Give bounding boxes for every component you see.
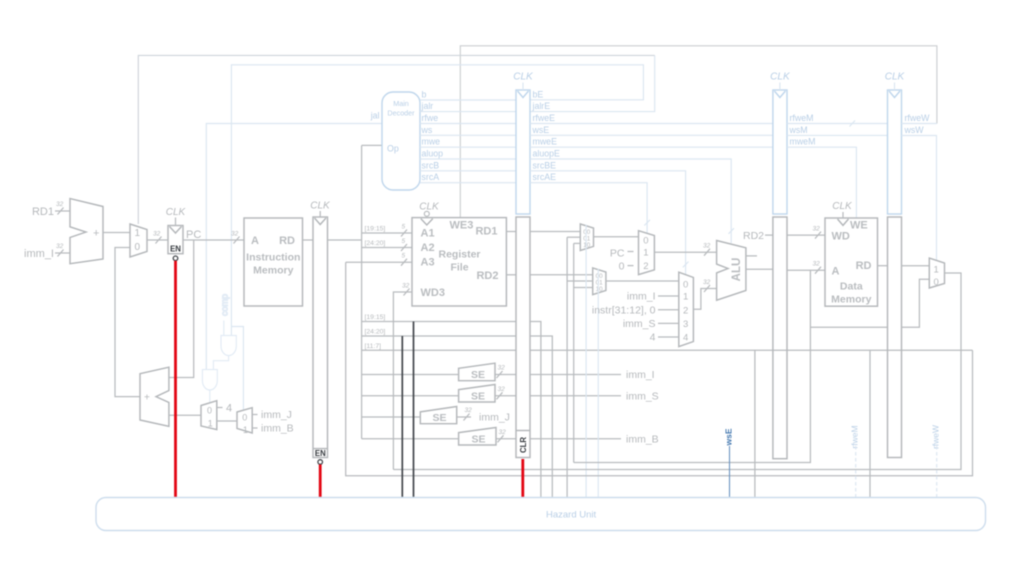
svg-text:0: 0: [242, 413, 247, 423]
wire ResultW forward tap into mux B: [567, 280, 593, 282]
wire branch-adder output loop to PCsrc mux input 0: [115, 248, 140, 397]
svg-text:EN: EN: [315, 449, 326, 458]
wire rfweW feedback top (to WE3 and down from x937): [460, 46, 937, 218]
svg-text:1: 1: [208, 419, 213, 429]
svg-text:RD2: RD2: [476, 270, 498, 282]
STAGE-D: [310, 92, 420, 464]
svg-text:WD3: WD3: [421, 287, 445, 299]
register D/E control (blue): [516, 90, 530, 214]
wire instruction bus to distribution node: [328, 239, 362, 241]
svg-text:rfweW: rfweW: [931, 425, 941, 449]
svg-text:32: 32: [231, 231, 239, 238]
wire ResultW forward tap into mux A: [567, 236, 580, 238]
enable bubble on PC register: [173, 256, 178, 261]
svg-text:CLK: CLK: [832, 201, 853, 212]
wire imm_S into SrcB mux input 3: [623, 318, 679, 330]
svg-text:imm_J: imm_J: [261, 409, 292, 421]
register M/W datapath: [888, 217, 902, 458]
svg-text:CLK: CLK: [885, 72, 906, 83]
WIRES-LONG: [138, 46, 937, 410]
wire srcA decoder to E reg: [420, 172, 516, 183]
svg-text:10: 10: [583, 242, 591, 249]
wire ReadDataM to W register: [878, 265, 888, 267]
HAZARD-UNIT: [96, 498, 986, 531]
wire SrcB mux to ALU: [693, 279, 716, 309]
svg-text:wsE: wsE: [532, 125, 550, 135]
svg-text:ws: ws: [421, 125, 433, 135]
wire rfweE to M register: [530, 113, 773, 124]
clock CLK of register file: [419, 202, 440, 226]
bus slash 32 on RD1 wire: [56, 201, 64, 215]
E-REGISTERS: [513, 72, 773, 458]
svg-text:0: 0: [934, 277, 939, 288]
wire RdW loop back to A3: [346, 262, 973, 476]
svg-text:WE: WE: [850, 220, 868, 232]
wire StallF (red) from hazard unit to PC EN: [174, 261, 177, 497]
wire wsE to M register: [530, 125, 773, 136]
svg-text:RD1: RD1: [475, 226, 497, 238]
M-REGISTERS: [770, 72, 887, 459]
svg-text:CLK: CLK: [770, 72, 791, 83]
clock CLK of M/W control register: [885, 72, 906, 91]
mux PCsrc (1/0): [130, 224, 147, 257]
svg-text:srcB: srcB: [422, 160, 440, 170]
svg-text:mweM: mweM: [790, 137, 816, 147]
svg-text:32: 32: [402, 283, 410, 290]
svg-text:+: +: [144, 393, 150, 404]
extender SE imm_S: [362, 385, 516, 403]
svg-text:imm_I: imm_I: [626, 369, 655, 381]
wire srcAE to SrcA mux select: [530, 172, 650, 233]
svg-text:A2: A2: [421, 242, 435, 254]
svg-text:4: 4: [650, 332, 656, 344]
wire imm_I into adder: [55, 252, 70, 254]
svg-text:imm_I: imm_I: [627, 291, 656, 303]
wire instr[24:20] to A2: [362, 238, 412, 251]
wire wsM to W register: [787, 125, 888, 135]
wire constant 4 into mux: [217, 403, 232, 415]
svg-text:rfwe: rfwe: [422, 113, 439, 123]
svg-text:SE: SE: [471, 390, 485, 402]
svg-text:32: 32: [498, 386, 506, 393]
REGFILE-AREA: [362, 202, 516, 470]
register PC (with EN): [168, 226, 183, 254]
svg-text:RD1: RD1: [32, 206, 54, 218]
svg-text:[24:20]: [24:20]: [365, 240, 386, 247]
svg-text:1: 1: [243, 425, 248, 435]
wire RdW to A3: [346, 253, 412, 266]
register E/M control (blue): [773, 90, 787, 214]
wire ALUResultM forward vertical: [573, 243, 575, 462]
svg-text:2: 2: [643, 261, 648, 272]
STAGE-E: [530, 224, 973, 497]
wire ResultW forward vertical: [566, 237, 568, 497]
OVERLAY-STRONG-LINES: [176, 261, 523, 497]
wire Rs1E to hazard unit: [530, 322, 541, 498]
svg-text:PC: PC: [610, 248, 625, 260]
hazard unit box: [96, 498, 986, 531]
COMP-AND-GATES: [202, 294, 236, 402]
svg-text:imm_J: imm_J: [479, 412, 510, 424]
mux result (1/0): [929, 258, 944, 288]
wire imm_I into SrcB mux input 1: [627, 291, 679, 303]
clock CLK of E/M control register: [770, 72, 791, 91]
wire Rs2E to hazard unit: [530, 336, 552, 497]
svg-text:Memory: Memory: [831, 294, 871, 306]
svg-text:1: 1: [934, 265, 939, 276]
wire WriteDataM to data memory WD: [787, 226, 825, 239]
svg-text:2: 2: [683, 305, 688, 316]
wire PC into SrcA mux input 1: [610, 248, 634, 260]
svg-text:Memory: Memory: [253, 265, 293, 277]
clock CLK of data memory: [832, 201, 853, 225]
wire FlushE (red) from hazard unit to D/E CLR: [521, 459, 524, 497]
clock CLK of PC register: [166, 207, 187, 226]
svg-text:32: 32: [56, 201, 64, 208]
enable bubble on F/D register: [318, 460, 323, 465]
CONTROL-ROWS-D: [420, 90, 516, 183]
wire ALU flag stub: [746, 255, 757, 257]
svg-text:4: 4: [683, 333, 688, 344]
svg-text:imm_I: imm_I: [24, 248, 54, 260]
wire instr[19:15] slice row D: [362, 314, 516, 322]
register M/W control (blue): [888, 90, 902, 214]
signal rfweW (blue) to hazard unit: [931, 425, 941, 497]
wire imm_B E with label: [530, 433, 659, 445]
svg-text:0: 0: [643, 236, 648, 247]
wire aluopE to ALU control: [530, 149, 731, 244]
svg-text:1: 1: [643, 248, 648, 259]
svg-text:SE: SE: [471, 369, 485, 381]
svg-text:+: +: [93, 228, 99, 240]
svg-text:srcBE: srcBE: [533, 160, 557, 170]
svg-text:0: 0: [619, 261, 625, 273]
svg-text:mwe: mwe: [422, 137, 441, 147]
wire 0 into SrcA mux input 2: [619, 261, 634, 273]
W-REGISTERS: [885, 72, 937, 458]
signal wsE (blue) to hazard unit: [724, 428, 734, 497]
svg-text:instr[31:12], 0: instr[31:12], 0: [592, 304, 656, 316]
STAGE-W: [346, 258, 973, 476]
wire imm_B into mux2: [252, 423, 293, 435]
mux forward A (00/01/10): [580, 224, 593, 251]
svg-text:WD: WD: [832, 231, 850, 243]
svg-text:32: 32: [813, 226, 821, 233]
decoder Main Decoder: [382, 92, 420, 190]
wire ALUResultM to W register lower port: [810, 326, 887, 328]
wire Rs1D (dark) to hazard unit: [413, 322, 415, 498]
BRANCH-TARGET-CLUSTER: [140, 367, 294, 435]
wire mux to branch adder: [169, 414, 201, 416]
svg-text:A3: A3: [421, 257, 435, 269]
svg-text:32: 32: [813, 261, 821, 268]
svg-text:ALU: ALU: [731, 258, 743, 282]
wire ws decoder to E reg: [420, 125, 516, 136]
wire instr[24:20] slice row D: [362, 329, 516, 337]
wire FwdBE select (blue) from hazard: [597, 269, 599, 498]
wire adder to PCsrc mux input 1: [103, 232, 130, 234]
mux SrcA (0/1/2): [639, 231, 655, 275]
bus slash 32 on imm_I wire: [56, 243, 64, 257]
svg-text:rfweM: rfweM: [850, 425, 860, 448]
register E/M datapath: [773, 217, 787, 459]
svg-text:SE: SE: [471, 433, 485, 445]
wire wsW to result mux select: [902, 125, 937, 260]
bus slash 32 on PC wire: [231, 231, 240, 244]
svg-text:32: 32: [498, 365, 506, 372]
svg-text:Decoder: Decoder: [387, 109, 415, 118]
gate OR (jal | branch): [202, 370, 217, 402]
wire ALUResultW to result mux input 0: [902, 279, 930, 327]
svg-text:PC: PC: [186, 229, 201, 241]
svg-text:[11:7]: [11:7]: [365, 343, 382, 350]
svg-text:Main: Main: [393, 99, 409, 108]
svg-text:5: 5: [402, 224, 406, 231]
clock CLK of F/D register: [310, 201, 331, 218]
signal rfweM (blue) to hazard unit: [850, 425, 860, 497]
svg-text:rfweM: rfweM: [790, 113, 814, 123]
wire StallD (red) from hazard unit to F/D EN: [319, 465, 322, 498]
wire RD1E to forward mux A: [530, 231, 580, 233]
wire RdE/RdM/RdW pipeline row: [530, 349, 973, 351]
wire RD1 regfile to D/E register: [506, 231, 516, 233]
wire WriteDataE RD2 to M register: [729, 228, 773, 242]
wire ALUResultM to data memory A: [787, 261, 825, 274]
svg-text:Instruction: Instruction: [246, 252, 300, 264]
wire rfwe decoder to E reg: [420, 113, 516, 124]
svg-text:Hazard Unit: Hazard Unit: [546, 510, 597, 521]
svg-text:1: 1: [683, 292, 688, 303]
wire imm_I E with label: [530, 369, 655, 381]
svg-text:32: 32: [153, 231, 161, 238]
wire ALU result to M register: [746, 268, 773, 270]
wire instr[31:12],0 into SrcB mux input 2: [592, 304, 679, 316]
wire ReadDataW to result mux input 1: [902, 265, 930, 267]
svg-text:b: b: [422, 90, 427, 100]
gate AND (comp & bE): [213, 336, 236, 370]
svg-text:1: 1: [135, 228, 141, 239]
svg-text:A: A: [251, 235, 259, 247]
mux immJ/immB: [237, 408, 252, 435]
STAGE-M: [574, 201, 888, 463]
wire RD1 into adder: [55, 210, 70, 212]
wire bE loop to branch AND gate: [231, 65, 643, 336]
svg-text:RD2: RD2: [743, 230, 764, 242]
wire Rs2D (dark) to hazard unit: [401, 336, 403, 497]
wire jal from decoder to OR gate: [206, 124, 382, 370]
svg-text:WE3: WE3: [450, 220, 474, 232]
wire forward mux B to SrcB mux input 0: [606, 280, 679, 282]
wire srcB decoder to E reg: [420, 160, 516, 171]
wire ALUResultM forward tap into mux B: [574, 287, 593, 289]
wire rfweW feedback to WE3: [902, 113, 937, 124]
wire mwe decoder to E reg: [420, 137, 516, 148]
svg-text:0: 0: [135, 242, 141, 253]
register F/D pipeline (with EN): [313, 217, 328, 458]
wire imm_S E with label: [530, 390, 659, 402]
wire instr[11:7] Rd row D: [362, 343, 516, 351]
svg-text:10: 10: [596, 286, 604, 293]
clock CLK of D/E control register: [513, 72, 534, 91]
wire Op to main decoder: [362, 144, 382, 146]
wire ResultW loop back to WD3 and forwards: [393, 273, 961, 470]
wire srcBE to SrcB mux select: [530, 160, 689, 274]
svg-text:5: 5: [402, 238, 406, 245]
svg-text:rfweE: rfweE: [533, 113, 556, 123]
svg-text:jalrE: jalrE: [532, 101, 551, 111]
wire WD3 from ResultW: [393, 283, 412, 470]
svg-text:rfweW: rfweW: [905, 113, 931, 123]
svg-text:CLK: CLK: [419, 202, 440, 213]
wire b decoder to E reg: [420, 90, 516, 101]
svg-text:jalr: jalr: [421, 101, 434, 111]
memory Data Memory: [825, 218, 878, 306]
svg-text:3: 3: [683, 319, 688, 330]
svg-text:imm_S: imm_S: [626, 390, 659, 402]
svg-text:CLR: CLR: [519, 437, 528, 453]
register file box: [412, 218, 506, 306]
wire instruction RD to F/D register: [303, 239, 314, 241]
mux SrcB immediate (0-4): [679, 272, 694, 346]
bus slash 32 PCnext: [153, 231, 162, 244]
svg-text:comp: comp: [220, 294, 230, 316]
wire constant 4 into SrcB mux input 4: [650, 332, 679, 344]
adder branch-target (PC + offset): [140, 367, 169, 426]
register D/E datapath (with CLR): [516, 217, 530, 458]
svg-text:RD: RD: [856, 260, 872, 272]
extender SE imm_J: [362, 407, 510, 425]
svg-text:0: 0: [207, 406, 212, 416]
svg-text:mweE: mweE: [533, 137, 558, 147]
svg-text:CLK: CLK: [513, 72, 534, 83]
alu ALU: [717, 241, 746, 301]
svg-text:[19:15]: [19:15]: [365, 226, 386, 233]
svg-text:CLK: CLK: [310, 201, 331, 212]
svg-text:imm_B: imm_B: [626, 433, 659, 445]
wire jalrE loop to PC mux select: [530, 55, 655, 111]
svg-text:32: 32: [499, 429, 507, 436]
wire RD2 regfile to D/E register: [506, 274, 516, 276]
wire bE branch to immJ/immB mux select: [231, 327, 243, 410]
svg-text:[24:20]: [24:20]: [365, 329, 386, 336]
wire instr[19:15] to A1: [362, 224, 412, 237]
extender SE imm_B: [362, 428, 516, 446]
wire instruction distribution vertical: [361, 145, 363, 438]
wire PC to instruction memory A: [183, 239, 244, 241]
wire mweM to data memory WE: [787, 137, 856, 218]
svg-text:RD: RD: [279, 235, 295, 247]
wire mweE to M register: [530, 137, 773, 148]
wire SrcA mux to ALU: [654, 243, 716, 256]
wire ALUResultM loop down through W register: [574, 270, 811, 462]
wire mux2 output to mux1 input 1: [217, 420, 237, 422]
wire FwdAE select (blue) from hazard: [585, 225, 587, 498]
svg-text:CLK: CLK: [166, 207, 187, 218]
wire jalr decoder to E reg: [420, 101, 516, 112]
svg-text:A1: A1: [421, 228, 435, 240]
extender SE imm_I: [362, 363, 516, 381]
svg-text:0: 0: [683, 280, 688, 291]
mux forward B (00/01/10): [593, 268, 606, 295]
svg-text:32: 32: [703, 243, 711, 250]
adder jalr-target (RD1+imm_I): [70, 199, 103, 264]
svg-text:wsW: wsW: [904, 125, 925, 135]
svg-text:wsE: wsE: [724, 428, 734, 446]
svg-text:32: 32: [703, 279, 711, 286]
svg-text:5: 5: [402, 253, 406, 260]
svg-text:Data: Data: [840, 281, 863, 293]
wire PC tap down to branch adder top input: [169, 240, 194, 378]
wire ALUResultM forward tap into mux A: [574, 242, 581, 244]
STAGE-F: [24, 199, 313, 397]
comparator comp label with stub: [220, 294, 230, 336]
svg-text:Register: Register: [438, 249, 480, 261]
svg-text:4: 4: [226, 403, 232, 415]
svg-text:bE: bE: [533, 90, 544, 100]
HAZARD-VERTICALS: [724, 350, 941, 497]
svg-text:jal: jal: [370, 111, 380, 121]
svg-text:EN: EN: [170, 245, 181, 254]
wire forward mux A to SrcA mux: [594, 236, 639, 238]
wire imm_J into mux2: [252, 409, 292, 421]
svg-text:SE: SE: [432, 412, 446, 424]
wire aluop decoder to E reg: [420, 149, 516, 160]
svg-text:wsM: wsM: [789, 125, 808, 135]
wire RdE tap to hazard unit: [754, 350, 756, 497]
svg-text:srcA: srcA: [422, 172, 440, 182]
svg-text:32: 32: [56, 243, 64, 250]
wire rfweM to W register: [787, 113, 888, 127]
svg-text:srcAE: srcAE: [533, 172, 557, 182]
memory Instruction Memory: [244, 218, 303, 306]
svg-text:aluopE: aluopE: [533, 149, 561, 159]
mux offset (4 / immsel): [201, 401, 217, 430]
svg-text:imm_S: imm_S: [623, 318, 656, 330]
svg-text:[19:15]: [19:15]: [365, 314, 386, 321]
wire PCsrc mux to PC register: [147, 239, 168, 241]
svg-text:File: File: [450, 262, 468, 274]
svg-text:32: 32: [465, 407, 473, 414]
svg-text:A: A: [832, 266, 840, 278]
wire RdM tap to hazard unit: [869, 350, 871, 497]
svg-text:imm_B: imm_B: [261, 423, 294, 435]
wire RD2E to forward mux B: [530, 274, 593, 276]
svg-text:Op: Op: [387, 144, 399, 154]
svg-text:aluop: aluop: [422, 149, 444, 159]
